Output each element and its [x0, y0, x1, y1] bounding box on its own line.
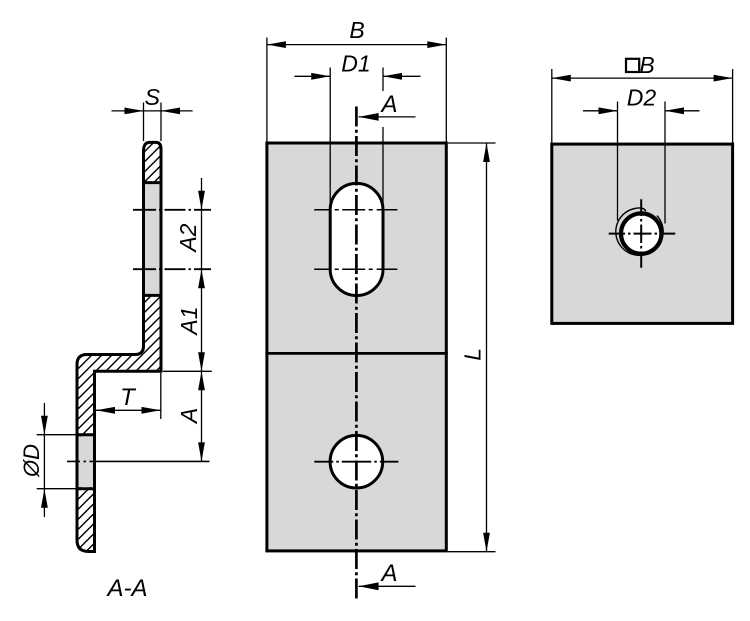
Z-profile outline	[77, 142, 161, 551]
round hole	[330, 435, 383, 488]
section arrow A (bottom)	[359, 560, 416, 590]
svg-text:B: B	[349, 17, 364, 43]
svg-text:L: L	[460, 348, 486, 361]
slot gap bottom edge	[142, 294, 163, 297]
section arrow A (top)	[359, 91, 416, 121]
svg-text:A1: A1	[176, 306, 202, 336]
Z-profile body (hatched section)	[77, 142, 161, 551]
dimension T	[96, 373, 161, 419]
slot (oblong hole)	[330, 183, 383, 295]
svg-text:B: B	[639, 52, 654, 78]
svg-text:S: S	[145, 84, 161, 110]
slot upper tick line	[314, 209, 397, 211]
slot upper arc centerline	[133, 209, 211, 211]
svg-text:A: A	[379, 560, 397, 587]
svg-text:ØD: ØD	[19, 444, 44, 478]
svg-text:D2: D2	[627, 85, 657, 111]
round hole horizontal centerline	[314, 461, 398, 463]
plate split line	[265, 352, 447, 355]
dimension chain A2 / A1 / A (vertical line right of section)	[163, 178, 212, 461]
hole horizontal centerline	[609, 233, 676, 235]
round hole bottom edge	[76, 487, 97, 490]
slot gap top edge	[142, 181, 163, 184]
hole vertical centerline	[640, 199, 642, 267]
threaded hole: core circle	[621, 213, 661, 253]
dimension ØD	[19, 403, 77, 517]
dimension D1	[295, 51, 421, 210]
dimension square-B	[552, 52, 733, 144]
cutting plane line A-A (vertical chain)	[355, 107, 358, 599]
round hole centerline / A extension	[67, 460, 210, 462]
slot lower tick line	[314, 268, 397, 270]
square plate body	[552, 144, 733, 323]
plate body	[267, 143, 446, 551]
round hole gap (lower bar, section)	[76, 436, 97, 487]
dimension S	[112, 84, 193, 141]
svg-text:A2: A2	[175, 223, 201, 253]
dimension L	[448, 143, 496, 552]
svg-text:A: A	[379, 91, 397, 118]
dimension D2	[583, 85, 700, 224]
round hole top edge	[76, 433, 97, 436]
threaded hole: thin thread circle	[616, 208, 663, 255]
svg-text:A: A	[176, 408, 202, 425]
slot lower arc centerline	[133, 268, 211, 270]
svg-text:D1: D1	[341, 51, 370, 77]
svg-text:A-A: A-A	[105, 575, 147, 602]
svg-text:T: T	[120, 384, 137, 411]
slot hole gap (upper bar, section)	[142, 184, 163, 294]
dimension B	[267, 17, 446, 143]
